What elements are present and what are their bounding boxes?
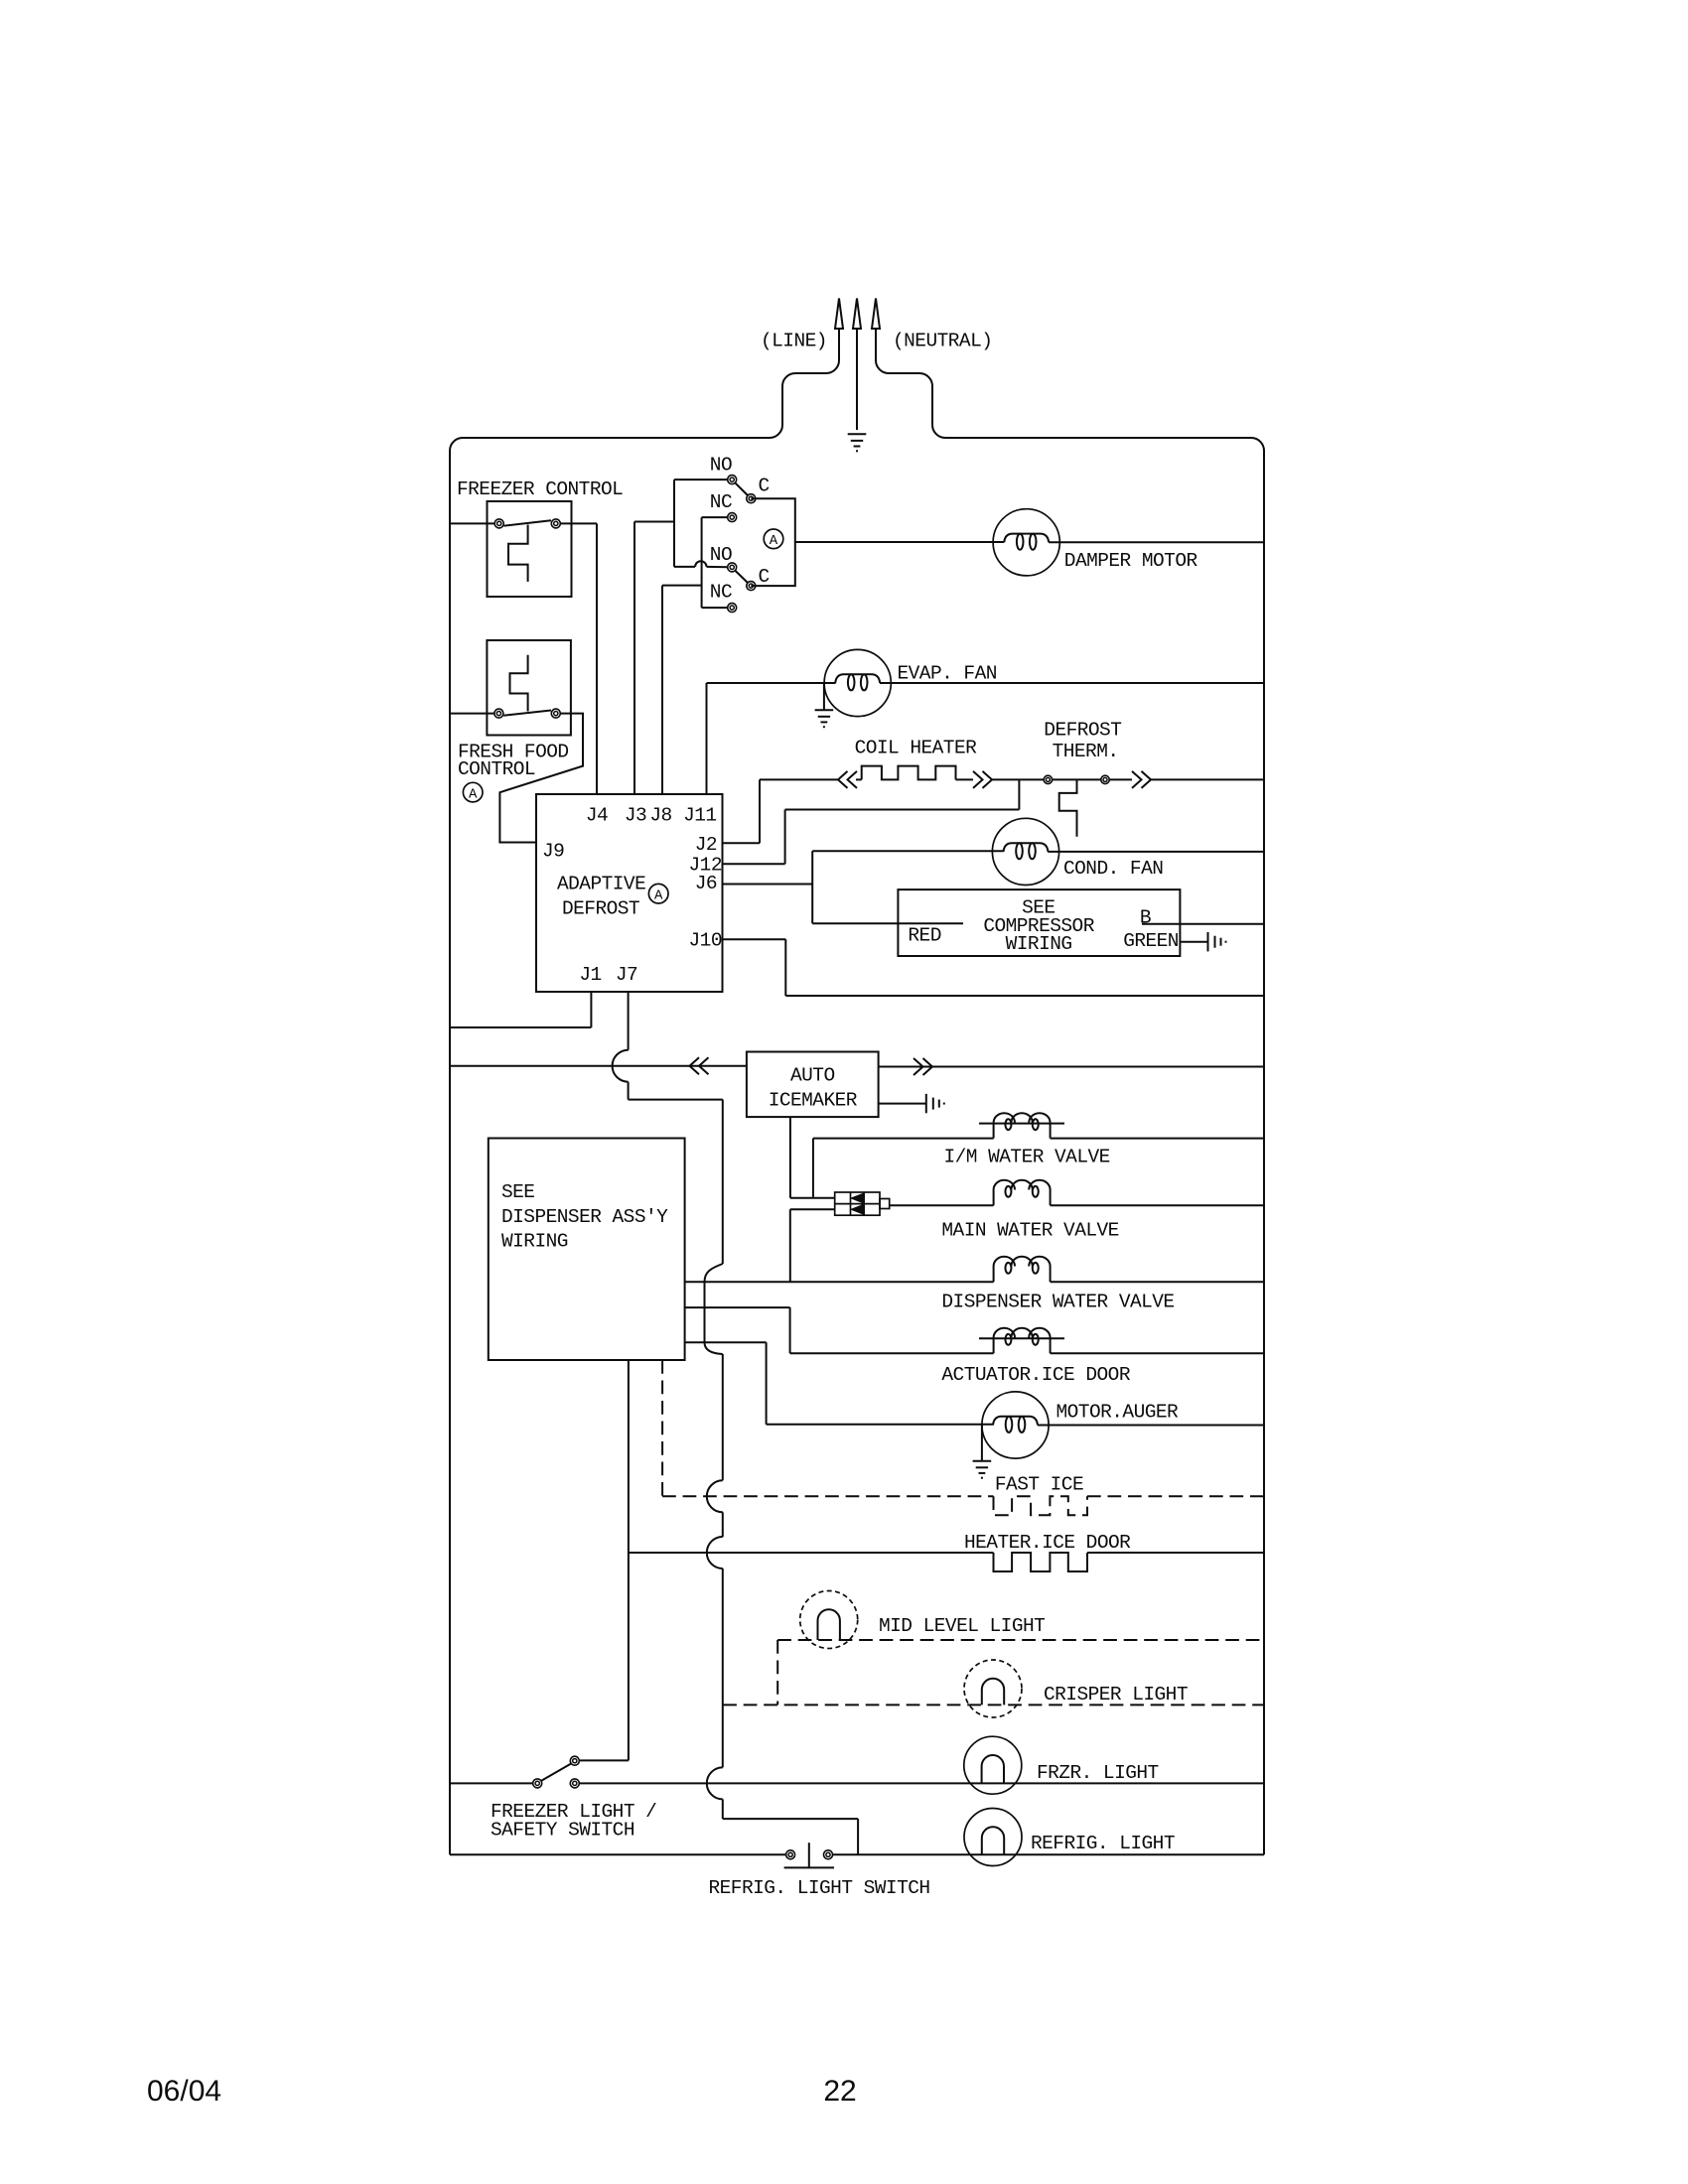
svg-text:HEATER.ICE DOOR: HEATER.ICE DOOR	[964, 1532, 1131, 1554]
power plug prong (NEUTRAL)	[872, 299, 880, 360]
svg-text:DISPENSER WATER VALVE: DISPENSER WATER VALVE	[941, 1292, 1174, 1313]
connector arrows (defrost therm right)	[1132, 771, 1151, 788]
svg-text:A: A	[654, 887, 663, 903]
svg-text:J9: J9	[542, 841, 564, 863]
heater ice door element	[994, 1553, 1088, 1571]
fresh food switch blade	[503, 711, 551, 716]
wire rail to compressor RED	[812, 922, 963, 924]
label J11	[683, 805, 716, 827]
svg-text:DEFROST: DEFROST	[1044, 720, 1121, 742]
wire fresh food to J9	[499, 714, 583, 843]
wire J6 to cond fan rail	[723, 884, 813, 886]
damper motor M1	[993, 509, 1059, 576]
ground (icemaker chassis)	[926, 1094, 944, 1113]
wire icemaker to water valves	[790, 1117, 835, 1198]
label EVAP. FAN	[898, 663, 997, 685]
fast ice element (dashed)	[994, 1496, 1088, 1515]
svg-text:ACTUATOR.ICE DOOR: ACTUATOR.ICE DOOR	[941, 1364, 1130, 1386]
svg-text:EVAP. FAN: EVAP. FAN	[898, 663, 997, 685]
wire hop (over heater line)	[707, 1537, 723, 1569]
svg-text:GREEN: GREEN	[1123, 930, 1179, 952]
ground (plug earth)	[848, 434, 867, 451]
svg-text:RED: RED	[908, 925, 940, 947]
svg-text:C: C	[759, 566, 770, 588]
wire main valve to right border	[1051, 1204, 1264, 1206]
wire solenoid to main valve	[890, 1204, 994, 1206]
crisper light dashed wire	[723, 1704, 1264, 1706]
label DEFROST (board)	[562, 898, 639, 920]
power plug prong (center/ground)	[853, 299, 861, 431]
cond fan motor M3	[992, 818, 1058, 885]
svg-text:CONTROL: CONTROL	[458, 758, 535, 780]
wire I/M valve branch	[813, 1139, 994, 1198]
label (LINE)	[761, 331, 827, 352]
wire evap fan to right border	[880, 682, 1264, 684]
wire defrost therm to right border	[1109, 778, 1264, 780]
svg-text:DAMPER MOTOR: DAMPER MOTOR	[1064, 550, 1198, 572]
svg-text:(LINE): (LINE)	[761, 331, 827, 352]
svg-text:NC: NC	[710, 582, 732, 604]
svg-text:I/M WATER VALVE: I/M WATER VALVE	[944, 1147, 1110, 1168]
svg-text:A: A	[770, 533, 778, 549]
svg-text:SEE: SEE	[501, 1181, 534, 1203]
label J10	[689, 930, 722, 952]
evap fan motor M2	[824, 649, 891, 716]
wire jog at dispenser valve wire	[705, 1264, 723, 1282]
wire left border to auto icemaker	[450, 1065, 747, 1067]
wire hop (over fast ice line)	[707, 1480, 723, 1512]
wire	[722, 1569, 724, 1767]
relay switch 1 terminal NC	[728, 513, 737, 522]
label CRISPER LIGHT	[1044, 1684, 1188, 1706]
svg-text:J3: J3	[625, 805, 646, 827]
label DEFROST (therm)	[1044, 720, 1121, 742]
svg-text:C: C	[759, 475, 770, 496]
label C (switch 2)	[759, 566, 770, 588]
label FRZR. LIGHT	[1037, 1762, 1159, 1784]
label NO (switch 2)	[710, 544, 732, 566]
relay switch 2 terminal NO	[728, 563, 737, 572]
svg-text:COND. FAN: COND. FAN	[1063, 858, 1163, 880]
fast ice dashed wire to right border	[1087, 1495, 1264, 1497]
relay pole wire (NO1-NO2 via left rail)	[674, 479, 728, 567]
wire solenoid bottom port	[790, 1209, 835, 1282]
svg-text:DEFROST: DEFROST	[562, 898, 639, 920]
label MAIN WATER VALVE	[941, 1220, 1118, 1242]
label B	[1140, 907, 1151, 929]
fresh food control box	[487, 640, 571, 736]
svg-text:FREEZER CONTROL: FREEZER CONTROL	[457, 478, 623, 500]
relay switch 1 blade	[736, 483, 749, 495]
wire icemaker to right border	[879, 1066, 1264, 1068]
dispenser assembly box	[489, 1139, 685, 1361]
refrig light lamp	[964, 1809, 1022, 1866]
freezer control terminal right	[551, 519, 560, 528]
defrost thermostat terminal 1	[1044, 775, 1052, 783]
label (NEUTRAL)	[893, 331, 992, 352]
marker A (relay)	[764, 529, 783, 549]
wire actuator to right border	[1051, 1352, 1264, 1354]
label FRESH FOOD	[458, 742, 569, 763]
marker A (fresh food)	[463, 782, 483, 802]
svg-text:WIRING: WIRING	[1006, 933, 1072, 955]
relay switch 2 terminal NC	[728, 604, 737, 613]
wire J2 to coil heater	[723, 779, 839, 843]
svg-text:NO: NO	[710, 544, 732, 566]
wire dispenser box to safety switch rail	[628, 1360, 630, 1760]
label WIRING (compressor)	[1006, 933, 1072, 955]
label C (switch 1)	[759, 475, 770, 496]
main water valve coil	[994, 1180, 1051, 1205]
fast ice dashed wire	[662, 1495, 993, 1497]
wire J7 down	[628, 992, 630, 1050]
wire rail to cond fan	[812, 850, 1004, 852]
fresh food terminal right	[551, 709, 560, 718]
freezer control thermostat element	[508, 525, 528, 582]
wire J10 to right border	[723, 939, 1265, 996]
wire	[704, 1282, 706, 1342]
label FREEZER LIGHT /	[491, 1801, 656, 1823]
footer date	[147, 2075, 221, 2108]
label REFRIG. LIGHT	[1031, 1833, 1175, 1854]
relay switch 1 terminal NO	[728, 476, 737, 484]
svg-text:(NEUTRAL): (NEUTRAL)	[893, 331, 992, 352]
svg-text:J4: J4	[586, 805, 608, 827]
wire	[856, 778, 862, 780]
label FREEZER CONTROL	[457, 478, 623, 500]
wire compressor B to right border	[1142, 923, 1264, 925]
wire border to freezer control	[450, 522, 494, 524]
bottom border wire (left of refrig switch)	[450, 1853, 786, 1855]
svg-text:J2: J2	[695, 834, 717, 856]
label AUTO	[790, 1065, 835, 1087]
refrig light switch plunger	[784, 1843, 834, 1867]
defrost thermostat terminal 2	[1101, 775, 1109, 783]
relay switch 2 blade	[736, 571, 749, 583]
freezer control box	[488, 501, 572, 597]
svg-text:22: 22	[823, 2075, 856, 2108]
auger motor M4	[982, 1392, 1049, 1458]
label COMPRESSOR	[983, 915, 1094, 937]
wire border to fresh food	[450, 713, 494, 715]
svg-text:WIRING: WIRING	[501, 1231, 568, 1253]
wire dispenser box to auger motor	[685, 1342, 994, 1425]
label MOTOR.AUGER	[1056, 1402, 1180, 1424]
svg-text:NC: NC	[710, 491, 732, 513]
label DAMPER MOTOR	[1064, 550, 1198, 572]
label NO (switch 1)	[710, 455, 732, 477]
crisper light lamp	[964, 1660, 1022, 1717]
wire relay rail to J3	[634, 522, 674, 795]
fresh food thermostat element	[510, 655, 528, 712]
wire icemaker to chassis ground	[879, 1103, 926, 1105]
svg-text:MAIN WATER VALVE: MAIN WATER VALVE	[941, 1220, 1118, 1242]
svg-text:B: B	[1140, 907, 1151, 929]
relay switch 2 terminal C	[747, 582, 756, 591]
label J2	[695, 834, 717, 856]
svg-text:06/04: 06/04	[147, 2075, 221, 2108]
svg-text:NO: NO	[710, 455, 732, 477]
label DISPENSER ASS'Y	[501, 1206, 668, 1228]
wire relay to damper motor	[795, 541, 1004, 543]
svg-text:FAST ICE: FAST ICE	[995, 1474, 1083, 1496]
actuator ice door coil	[979, 1328, 1064, 1353]
freezer control terminal left	[494, 519, 503, 528]
label DISPENSER WATER VALVE	[941, 1292, 1174, 1313]
wire freezer control to J4	[560, 523, 597, 794]
adaptive defrost board box	[536, 794, 723, 992]
wire	[723, 1799, 858, 1854]
label FAST ICE	[995, 1474, 1083, 1496]
label J8	[649, 805, 671, 827]
connector arrows (coil heater right)	[973, 771, 992, 788]
label THERM.	[1053, 741, 1119, 762]
wire	[722, 1512, 724, 1537]
svg-text:J6: J6	[695, 873, 717, 894]
connector arrows (coil heater left)	[838, 771, 857, 788]
wire heater to right border	[1087, 1552, 1264, 1554]
wire J12 to coil heater node	[723, 779, 1020, 864]
wire J7 vertical rail	[722, 1100, 724, 1264]
label J12	[689, 855, 722, 877]
safety switch terminal left	[533, 1779, 542, 1788]
label COND. FAN	[1063, 858, 1163, 880]
mid level light lamp	[800, 1591, 858, 1649]
svg-text:SAFETY SWITCH: SAFETY SWITCH	[491, 1820, 634, 1842]
refrig light switch terminal left	[786, 1850, 795, 1859]
svg-text:ADAPTIVE: ADAPTIVE	[557, 874, 645, 895]
wire heater ice door	[629, 1552, 994, 1554]
label SEE (dispenser)	[501, 1181, 534, 1203]
I/M water valve coil	[979, 1113, 1064, 1138]
label J6	[695, 873, 717, 894]
wire	[629, 1082, 723, 1100]
label GREEN	[1123, 930, 1179, 952]
connector arrows (icemaker left)	[690, 1057, 709, 1074]
wire auger motor to right border	[1038, 1425, 1264, 1427]
coil heater element	[862, 766, 956, 780]
relay switch 1 terminal C	[747, 494, 756, 503]
svg-text:J10: J10	[689, 930, 722, 952]
label J1	[579, 964, 601, 986]
wire coil heater to defrost therm	[991, 778, 1044, 780]
main border (plug inlet right + top + right)	[876, 359, 1264, 1854]
label ACTUATOR.ICE DOOR	[941, 1364, 1130, 1386]
svg-text:FRZR. LIGHT: FRZR. LIGHT	[1037, 1762, 1159, 1784]
defrost thermostat sensing element	[1059, 779, 1077, 836]
relay NC rail	[702, 517, 728, 608]
compressor box	[898, 889, 1180, 956]
wire hop (over freezer light line)	[707, 1767, 723, 1799]
safety switch terminal upper	[570, 1756, 579, 1765]
label RED	[908, 925, 940, 947]
label COIL HEATER	[855, 737, 978, 758]
marker A (adaptive defrost)	[648, 884, 668, 903]
label NC (switch 1)	[710, 491, 732, 513]
svg-text:COIL HEATER: COIL HEATER	[855, 737, 978, 758]
bottom border wire (right of refrig switch)	[833, 1853, 1264, 1855]
power plug prong (LINE)	[835, 299, 843, 360]
svg-text:REFRIG. LIGHT: REFRIG. LIGHT	[1031, 1833, 1175, 1854]
refrig light switch terminal right	[824, 1850, 833, 1859]
wire J11 to evap fan	[707, 683, 836, 794]
water valve solenoid body	[835, 1192, 890, 1215]
wire cond fan to right border	[1048, 851, 1264, 853]
svg-text:AUTO: AUTO	[790, 1065, 835, 1087]
label MID LEVEL LIGHT	[879, 1615, 1045, 1637]
freezer control switch blade	[504, 520, 552, 525]
label J3	[625, 805, 646, 827]
dispenser water valve coil	[994, 1257, 1051, 1282]
label SEE (compressor)	[1022, 897, 1055, 919]
svg-text:DISPENSER ASS'Y: DISPENSER ASS'Y	[501, 1206, 668, 1228]
mid level light dashed wire	[777, 1639, 1264, 1641]
main border (left + top + plug inlet left)	[450, 359, 839, 1854]
svg-text:MID LEVEL LIGHT: MID LEVEL LIGHT	[879, 1615, 1045, 1637]
mid level light dashed drop	[776, 1640, 778, 1705]
wire J1 to left border	[450, 992, 591, 1027]
label ADAPTIVE	[557, 874, 645, 895]
wire jog at auger wire	[705, 1342, 723, 1354]
label SAFETY SWITCH	[491, 1820, 634, 1842]
safety switch blade	[541, 1764, 571, 1782]
svg-text:MOTOR.AUGER: MOTOR.AUGER	[1056, 1402, 1180, 1424]
wire hop (J7 over icemaker feed)	[613, 1050, 629, 1082]
fast ice dashed rail	[661, 1360, 663, 1496]
svg-text:THERM.: THERM.	[1053, 741, 1119, 762]
svg-text:REFRIG. LIGHT SWITCH: REFRIG. LIGHT SWITCH	[709, 1877, 930, 1899]
svg-text:J8: J8	[649, 805, 671, 827]
label I/M WATER VALVE	[944, 1147, 1110, 1168]
wire damper motor to right border	[1049, 541, 1264, 543]
wire safety switch upper terminal	[579, 1759, 629, 1761]
label WIRING (dispenser)	[501, 1231, 568, 1253]
label J7	[616, 964, 637, 986]
ground (compressor chassis)	[1208, 932, 1226, 951]
wire border to safety switch	[450, 1782, 533, 1784]
svg-text:ICEMAKER: ICEMAKER	[769, 1090, 858, 1112]
label ICEMAKER	[769, 1090, 858, 1112]
auto icemaker box	[747, 1052, 879, 1118]
wire	[956, 778, 974, 780]
safety switch terminal right	[570, 1779, 579, 1788]
ground (auger motor)	[973, 1426, 992, 1478]
wire relay NC to J8	[662, 586, 702, 794]
wire dispenser box to actuator	[685, 1307, 994, 1353]
wire I/M valve to right border	[1051, 1138, 1264, 1140]
ground (evap fan)	[815, 683, 834, 727]
label NC (switch 2)	[710, 582, 732, 604]
label J4	[586, 805, 608, 827]
wire dispenser valve to right border	[1051, 1281, 1264, 1283]
label CONTROL	[458, 758, 535, 780]
svg-text:J7: J7	[616, 964, 637, 986]
wire safety switch to frzr light	[579, 1782, 1264, 1784]
label HEATER.ICE DOOR	[964, 1532, 1131, 1554]
label REFRIG. LIGHT SWITCH	[709, 1877, 930, 1899]
footer page number	[823, 2075, 856, 2108]
connector arrows (icemaker right)	[914, 1058, 932, 1075]
svg-text:J1: J1	[579, 964, 601, 986]
frzr light lamp	[964, 1736, 1022, 1794]
wire dispenser box to dispenser valve	[685, 1281, 994, 1283]
wire	[722, 1354, 724, 1480]
wire between defrost therm terminals	[1053, 778, 1101, 780]
wire GREEN to chassis ground	[1181, 941, 1208, 943]
svg-text:CRISPER LIGHT: CRISPER LIGHT	[1044, 1684, 1188, 1706]
cond fan rail	[811, 851, 813, 923]
svg-text:J11: J11	[683, 805, 716, 827]
fresh food terminal left	[494, 709, 503, 718]
relay coil box	[751, 498, 795, 586]
label J9	[542, 841, 564, 863]
svg-text:A: A	[469, 786, 478, 802]
